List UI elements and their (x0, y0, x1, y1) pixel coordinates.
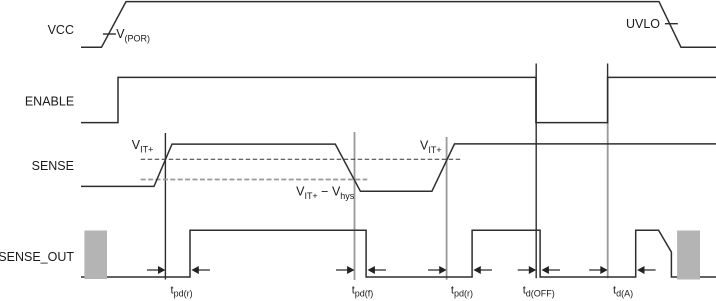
arrow right toward tpd(r)2 ref line (428, 266, 447, 274)
SENSE_OUT undefined-state gray box left (84, 231, 107, 280)
ENABLE rise edge top stub (607, 64, 609, 79)
arrow left toward SENSE_OUT rise 1 (191, 266, 210, 274)
svg-text:SENSE: SENSE (32, 159, 74, 173)
SENSE waveform (81, 144, 716, 191)
svg-text:UVLO: UVLO (626, 17, 660, 31)
svg-text:ENABLE: ENABLE (25, 94, 74, 108)
ref line tpd(r)2 at SENSE rise 2 (446, 137, 448, 280)
SENSE_OUT waveform (81, 230, 716, 277)
ref line td(A) at ENABLE rise (607, 77, 609, 278)
arrow right toward tpd(f) ref line (336, 266, 355, 274)
ref line tpd(r)1 at SENSE rise (164, 133, 166, 280)
SENSE_OUT undefined-state gray box right (677, 231, 700, 280)
arrow right toward td(A) ref line (589, 266, 608, 274)
VIT+ - Vhys lower threshold dashed line (141, 179, 368, 181)
arrow right toward tpd(r)1 ref line (147, 266, 166, 274)
VIT+ upper threshold dashed line (141, 158, 461, 160)
arrow left toward SENSE_OUT fall 2 (542, 266, 561, 274)
V(POR) threshold tick on VCC ramp (103, 33, 116, 35)
ref line td(OFF) at ENABLE fall (535, 64, 537, 279)
arrow left toward SENSE_OUT fall 1 (368, 266, 387, 274)
svg-text:VCC: VCC (48, 23, 74, 37)
ENABLE waveform (81, 77, 716, 122)
svg-text:SENSE_OUT: SENSE_OUT (0, 250, 74, 264)
arrow left toward SENSE_OUT rise 2 (473, 266, 492, 274)
arrow right toward td(OFF) ref line (518, 266, 537, 274)
arrow left toward SENSE_OUT rise 3 (637, 266, 656, 274)
ref line tpd(f) at SENSE fall (354, 132, 356, 280)
VCC waveform (81, 2, 716, 48)
UVLO threshold tick on VCC falling ramp (665, 23, 678, 25)
